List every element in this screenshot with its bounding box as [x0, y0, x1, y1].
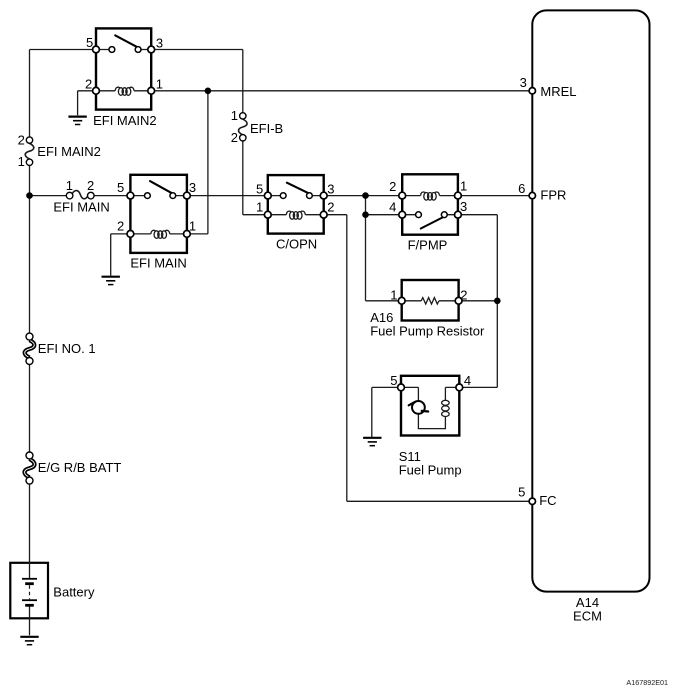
- svg-text:4: 4: [464, 373, 471, 388]
- svg-text:MREL: MREL: [540, 84, 576, 99]
- svg-text:4: 4: [389, 200, 396, 215]
- svg-text:F/PMP: F/PMP: [408, 237, 448, 252]
- svg-text:1: 1: [390, 288, 397, 303]
- svg-text:5: 5: [256, 182, 263, 197]
- svg-text:EFI MAIN: EFI MAIN: [53, 200, 109, 215]
- svg-text:5: 5: [86, 35, 93, 50]
- svg-text:5: 5: [117, 180, 124, 195]
- svg-text:3: 3: [520, 75, 527, 90]
- svg-text:5: 5: [518, 484, 525, 499]
- svg-text:A167892E01: A167892E01: [626, 678, 668, 687]
- svg-text:1: 1: [66, 178, 73, 193]
- svg-text:3: 3: [460, 199, 467, 214]
- svg-text:6: 6: [518, 181, 525, 196]
- svg-text:2: 2: [18, 132, 25, 147]
- svg-text:2: 2: [389, 179, 396, 194]
- svg-text:1: 1: [231, 108, 238, 123]
- svg-text:2: 2: [460, 288, 467, 303]
- svg-text:1: 1: [156, 76, 163, 91]
- svg-text:Fuel Pump: Fuel Pump: [399, 462, 462, 477]
- svg-text:EFI NO. 1: EFI NO. 1: [38, 341, 96, 356]
- svg-text:EFI-B: EFI-B: [250, 121, 283, 136]
- svg-text:Battery: Battery: [53, 585, 95, 600]
- svg-text:FC: FC: [539, 493, 556, 508]
- svg-text:1: 1: [189, 218, 196, 233]
- svg-text:5: 5: [390, 373, 397, 388]
- svg-text:E/G R/B BATT: E/G R/B BATT: [38, 460, 122, 475]
- svg-text:3: 3: [189, 180, 196, 195]
- svg-text:EFI MAIN2: EFI MAIN2: [37, 144, 101, 159]
- svg-text:2: 2: [87, 178, 94, 193]
- svg-text:EFI MAIN: EFI MAIN: [130, 255, 186, 270]
- svg-text:1: 1: [256, 200, 263, 215]
- svg-text:3: 3: [156, 35, 163, 50]
- svg-text:C/OPN: C/OPN: [276, 237, 317, 252]
- svg-text:Fuel Pump Resistor: Fuel Pump Resistor: [370, 323, 485, 338]
- svg-text:3: 3: [327, 182, 334, 197]
- svg-text:ECM: ECM: [573, 609, 602, 624]
- svg-text:1: 1: [18, 154, 25, 169]
- svg-text:2: 2: [327, 200, 334, 215]
- svg-text:FPR: FPR: [540, 187, 566, 202]
- svg-text:2: 2: [85, 76, 92, 91]
- svg-text:2: 2: [117, 218, 124, 233]
- svg-text:1: 1: [460, 179, 467, 194]
- svg-text:2: 2: [231, 130, 238, 145]
- svg-text:EFI MAIN2: EFI MAIN2: [93, 113, 157, 128]
